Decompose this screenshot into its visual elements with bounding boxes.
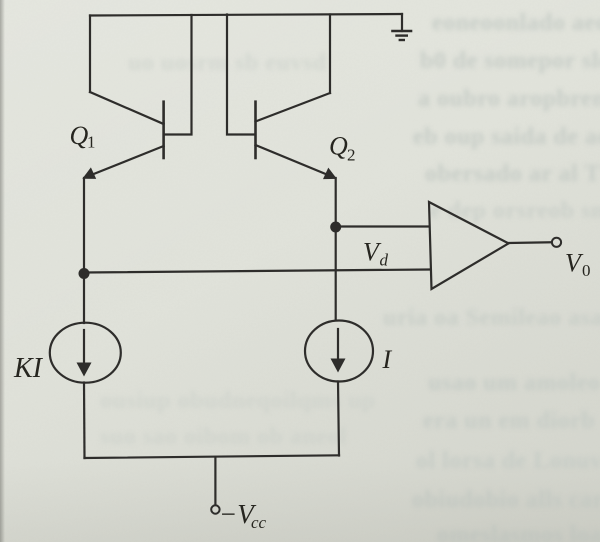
current source KI [50,323,121,383]
wire: Q1 base lead to rail [165,15,192,135]
svg-text:0: 0 [582,261,591,280]
node V0 (output terminal) [552,238,561,247]
svg-text:Q: Q [70,121,89,150]
label -Vcc [219,499,267,532]
wire: I to bottom rail [338,382,339,456]
wire: stub to -Vcc terminal [214,457,216,505]
wire: comparator output [509,241,552,244]
svg-text:cc: cc [251,513,267,532]
wire: Q2 base lead to rail [227,15,254,135]
wire: node A down to current source KI [83,274,85,324]
transistor Q2 [256,93,337,179]
current source I [305,321,373,382]
label Q1 [70,121,96,152]
node A (Q1 emitter junction) [79,268,90,279]
wire: Q1 emitter down to node A [83,178,85,274]
wire: Q2 collector lead from rail [329,15,331,94]
label V0 [565,249,591,281]
terminal -Vcc [211,505,219,513]
wire: node A to comparator bottom input [84,270,429,273]
svg-text:Q: Q [329,132,348,161]
wire: top ground rail [90,14,402,16]
label Vd [363,238,389,270]
ground [393,14,412,40]
svg-text:d: d [380,251,389,270]
svg-text:2: 2 [347,146,356,165]
svg-text:KI: KI [13,353,44,384]
ghost show-through text from reverse page [432,10,600,37]
wire: node B down to current source I [335,227,337,320]
svg-text:I: I [382,345,393,374]
svg-text:1: 1 [87,133,96,152]
wire: Q2 emitter down to node B [335,178,337,227]
label KI [13,353,44,384]
wire: Q1 collector lead from rail [89,16,91,93]
wire: KI to bottom rail [83,383,86,459]
wire: bottom rail [85,455,340,458]
node B (Q2 emitter junction) [330,222,341,233]
transistor Q1 [82,92,163,179]
label I [382,345,393,374]
wire: node B to comparator top input [336,225,429,227]
op-amp U1 (comparator) [429,202,509,289]
label Q2 [329,132,356,165]
